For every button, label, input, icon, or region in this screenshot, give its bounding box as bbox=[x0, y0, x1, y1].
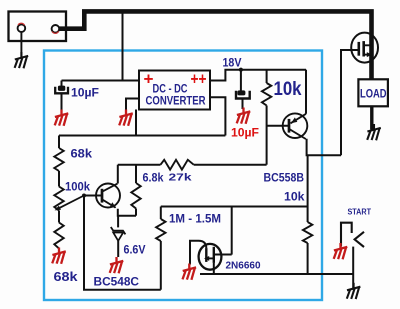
svg-text:27k: 27k bbox=[169, 172, 192, 184]
svg-text:BC558B: BC558B bbox=[264, 173, 305, 185]
svg-text:2N6660: 2N6660 bbox=[226, 260, 261, 272]
svg-text:10µF: 10µF bbox=[71, 86, 99, 100]
svg-text:10k: 10k bbox=[284, 192, 305, 204]
svg-text:10µF: 10µF bbox=[231, 126, 259, 140]
svg-text:CONVERTER: CONVERTER bbox=[146, 94, 206, 108]
svg-text:LOAD: LOAD bbox=[360, 89, 387, 101]
svg-text:10k: 10k bbox=[274, 79, 302, 100]
svg-text:68k: 68k bbox=[54, 270, 78, 284]
svg-text:100k: 100k bbox=[65, 180, 90, 194]
svg-text:1M - 1.5M: 1M - 1.5M bbox=[169, 214, 221, 226]
svg-text:6.8k: 6.8k bbox=[143, 173, 165, 185]
svg-text:18V: 18V bbox=[223, 58, 242, 70]
svg-text:BC548C: BC548C bbox=[94, 277, 140, 289]
svg-text:++: ++ bbox=[191, 70, 207, 89]
svg-text:6.6V: 6.6V bbox=[124, 245, 146, 257]
svg-text:START: START bbox=[348, 208, 372, 217]
svg-text:68k: 68k bbox=[71, 147, 93, 161]
svg-text:+: + bbox=[144, 70, 154, 89]
